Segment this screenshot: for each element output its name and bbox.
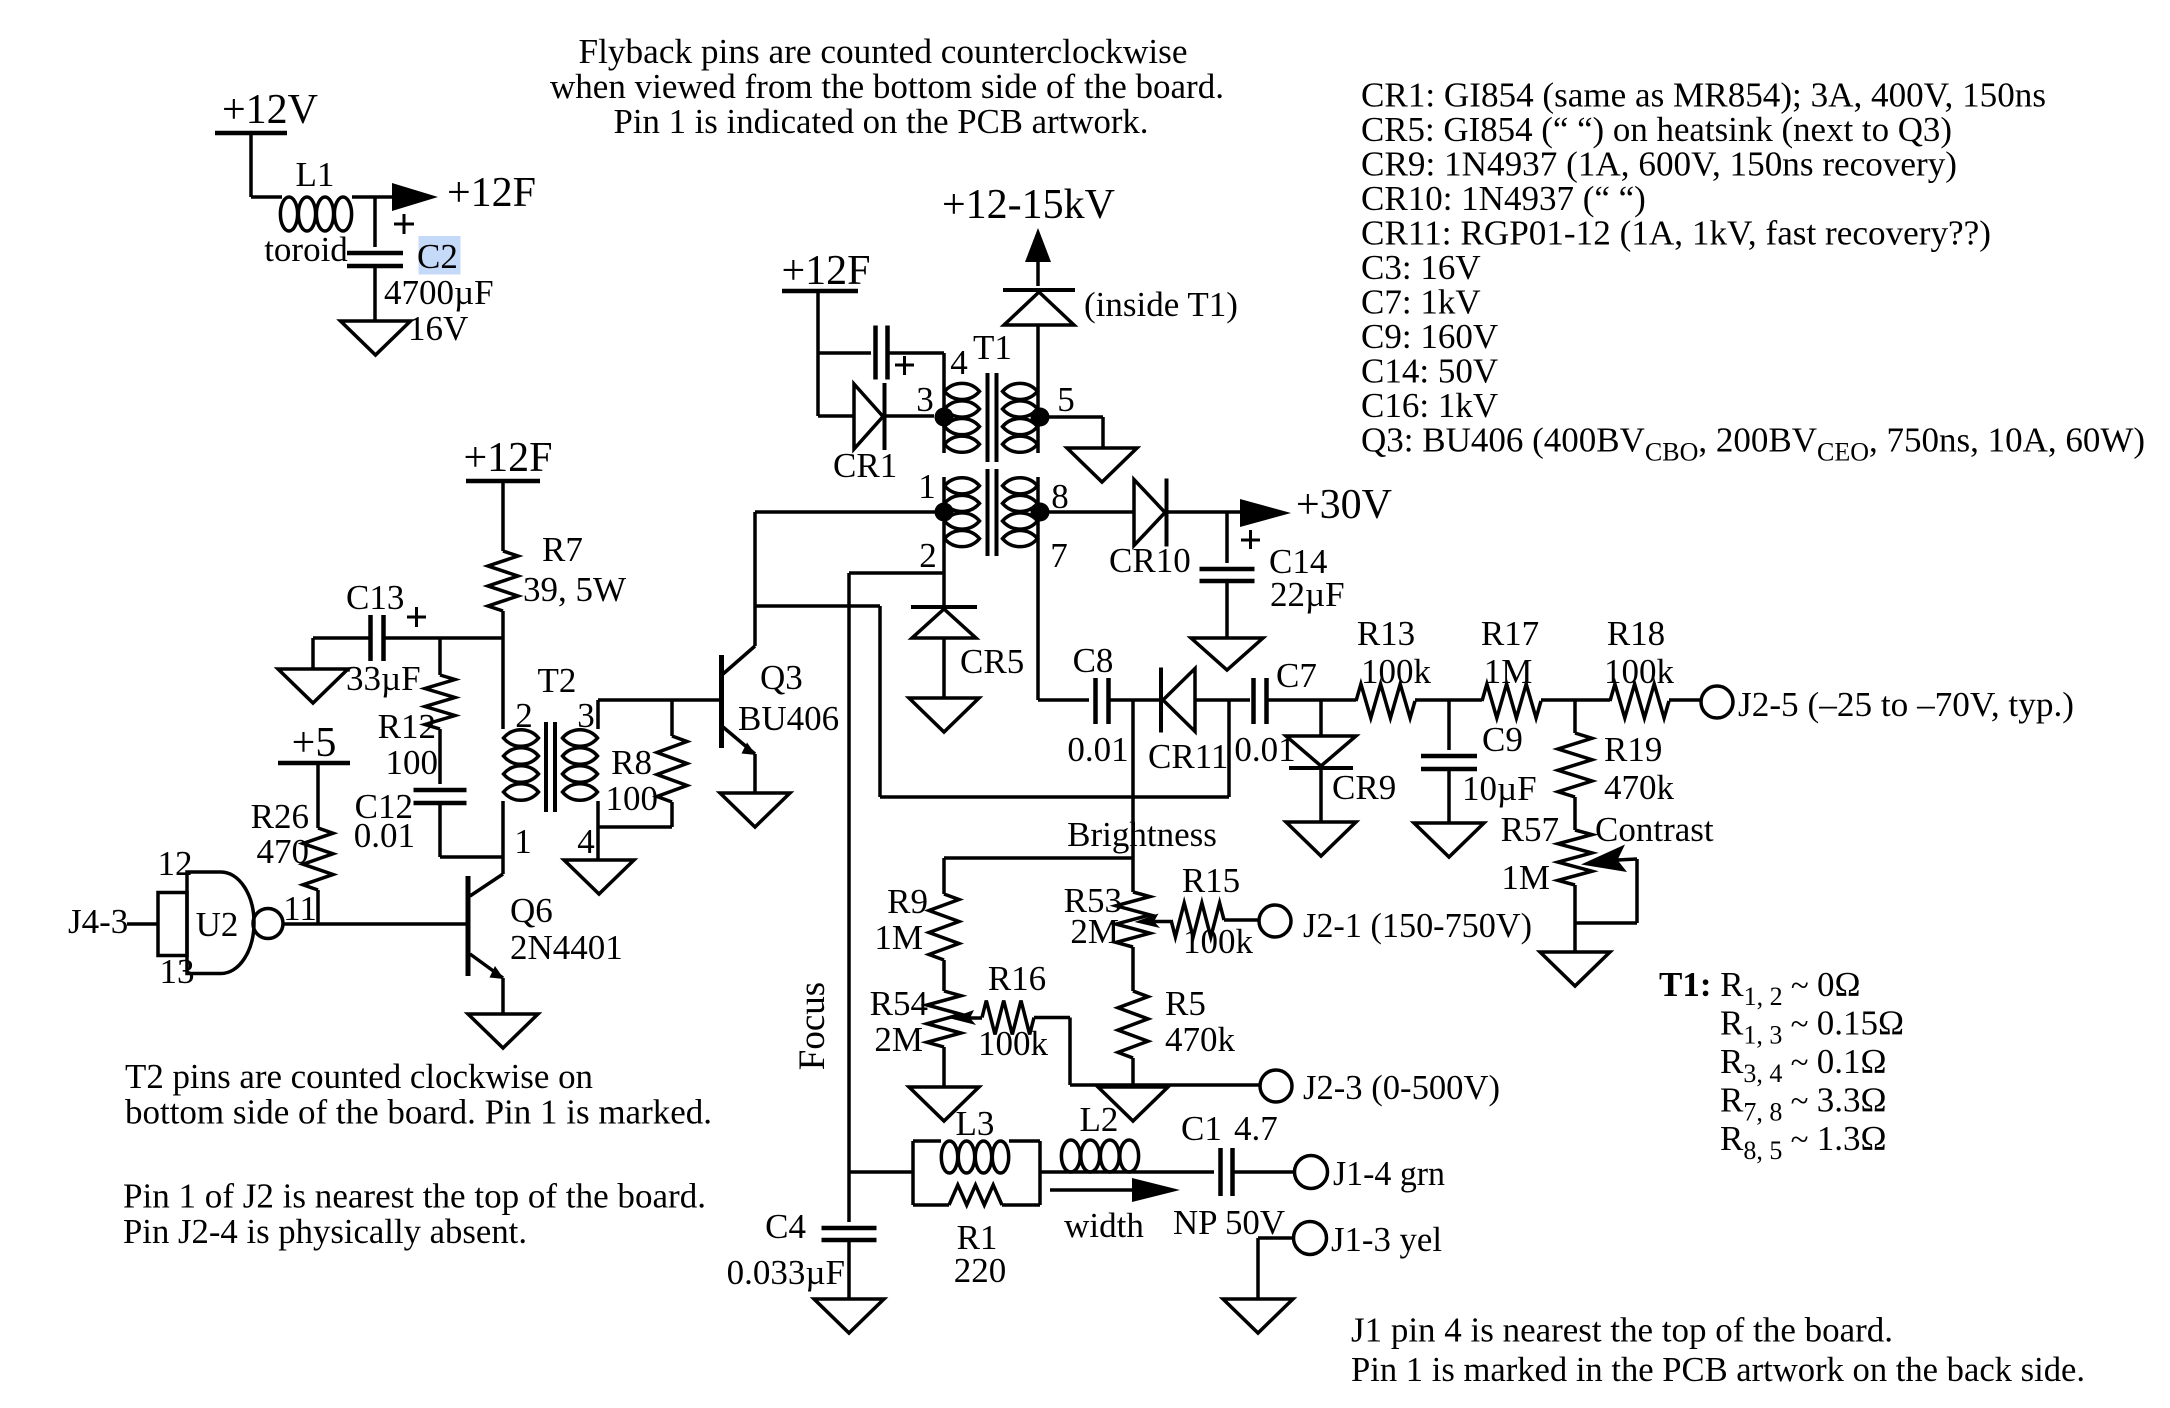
resistor R5 470k [1118, 984, 1236, 1085]
svg-text:R19: R19 [1604, 730, 1662, 769]
ground (R57) [1540, 952, 1610, 986]
svg-text:100k: 100k [1604, 652, 1675, 691]
T1 pin number 8 [1051, 477, 1069, 516]
svg-text:CR1: GI854 (same as MR854); 3A: CR1: GI854 (same as MR854); 3A, 400V, 15… [1361, 76, 2046, 115]
capacitor C4 0.033uF [727, 1172, 877, 1299]
node T1 pin 5 junction [1031, 408, 1050, 427]
svg-text:L3: L3 [956, 1104, 995, 1143]
svg-text:R54: R54 [870, 984, 928, 1023]
svg-text:1M: 1M [1501, 858, 1550, 897]
diode (inside T1) [1003, 285, 1238, 325]
svg-text:11: 11 [283, 889, 317, 928]
svg-text:Flyback pins are counted count: Flyback pins are counted counterclockwis… [579, 32, 1188, 71]
svg-text:U2: U2 [196, 905, 239, 944]
connector J1-4 [1295, 1154, 1446, 1193]
svg-text:+12-15kV: +12-15kV [942, 182, 1115, 228]
T2 secondary winding (pins 3-4) [563, 730, 598, 801]
svg-text:5: 5 [1057, 380, 1075, 419]
svg-text:+30V: +30V [1296, 482, 1392, 528]
transistor Q6 2N4401 [468, 874, 623, 1014]
resistor R19 470k [1558, 700, 1675, 830]
diode CR11 [1148, 668, 1250, 777]
svg-text:33µF: 33µF [346, 659, 421, 698]
svg-text:L2: L2 [1080, 1100, 1119, 1139]
svg-text:CR9: CR9 [1332, 768, 1396, 807]
diode CR5 [911, 607, 1024, 698]
svg-text:2M: 2M [1070, 912, 1119, 951]
node T1 pin 1 junction [935, 503, 954, 522]
svg-text:R12: R12 [378, 707, 436, 746]
svg-text:CR5: CR5 [960, 642, 1024, 681]
T2 core [546, 722, 555, 812]
svg-text:R18: R18 [1607, 614, 1665, 653]
transformer T1 label [973, 328, 1012, 367]
resistor R16 100k [978, 959, 1070, 1085]
svg-text:R8: R8 [611, 743, 652, 782]
net +12F arrow [392, 170, 536, 216]
svg-text:3: 3 [916, 380, 934, 419]
net +5 [278, 720, 350, 828]
svg-text:R9: R9 [887, 882, 928, 921]
svg-text:C14: 50V: C14: 50V [1361, 352, 1498, 391]
svg-text:22µF: 22µF [1270, 575, 1345, 614]
svg-text:bottom side of the board. Pin: bottom side of the board. Pin 1 is marke… [125, 1093, 712, 1132]
resistor R26 470 [251, 797, 333, 924]
svg-text:C7: C7 [1276, 656, 1317, 695]
ground (CR5) [909, 698, 979, 732]
ground (C4) [814, 1299, 884, 1333]
svg-text:C13: C13 [346, 578, 404, 617]
svg-text:CR5: GI854 (“ “) on heatsink (: CR5: GI854 (“ “) on heatsink (next to Q3… [1361, 110, 1952, 149]
svg-text:2N4401: 2N4401 [510, 928, 623, 967]
inductor L3 with resistor R1 220 (parallel box) [849, 1104, 1061, 1290]
svg-text:Brightness: Brightness [1067, 815, 1217, 854]
note: T2 pin counting [125, 1057, 712, 1132]
T1 core [988, 373, 997, 556]
connector J2-5 [1701, 685, 2074, 724]
svg-text:Focus: Focus [792, 982, 833, 1070]
svg-text:BU406: BU406 [738, 699, 839, 738]
capacitor C1 4.7 NP 50V [1173, 1109, 1294, 1242]
ground (R54) [909, 1087, 979, 1121]
svg-text:CR10: 1N4937 (“ “): CR10: 1N4937 (“ “) [1361, 179, 1646, 218]
node T1 pin 8 junction [1031, 503, 1050, 522]
svg-text:T1: T1 [973, 328, 1012, 367]
wire: U2 output to Q6 base [283, 922, 466, 926]
svg-text:width: width [1064, 1206, 1144, 1245]
ground (CR9) [1286, 822, 1356, 856]
U2 pin number 13 [160, 952, 195, 991]
svg-text:CR11: RGP01-12 (1A, 1kV, fast: CR11: RGP01-12 (1A, 1kV, fast recovery??… [1361, 214, 1991, 253]
svg-text:Q6: Q6 [510, 891, 553, 930]
T2 pin number 2 [515, 696, 533, 735]
svg-text:220: 220 [954, 1251, 1007, 1290]
svg-text:2: 2 [919, 536, 937, 575]
gate U2 (NAND) [187, 872, 283, 974]
potentiometer R54 2M [870, 984, 982, 1087]
svg-text:0.033µF: 0.033µF [727, 1253, 845, 1292]
U2 pin number 11 [283, 889, 317, 928]
svg-text:C16: 1kV: C16: 1kV [1361, 386, 1498, 425]
svg-text:C1: C1 [1181, 1109, 1222, 1148]
svg-text:J2-5 (–25 to –70V, typ.): J2-5 (–25 to –70V, typ.) [1738, 685, 2074, 724]
ground (C2) [341, 321, 411, 355]
note: J1 pins [1351, 1311, 2085, 1390]
svg-text:CR1: CR1 [833, 446, 897, 485]
net +12-15kV arrow [942, 182, 1115, 286]
svg-text:C7: 1kV: C7: 1kV [1361, 283, 1481, 322]
wire: T1 pin 7 down to C8 rail [1036, 546, 1040, 700]
svg-text:toroid: toroid [264, 230, 348, 269]
width arrow [1050, 1178, 1180, 1245]
svg-text:Pin 1 is marked in the PCB art: Pin 1 is marked in the PCB artwork on th… [1351, 1350, 2085, 1389]
wire: R7 to T2 pin 2 [501, 611, 505, 729]
svg-text:1: 1 [918, 467, 936, 506]
svg-text:R57: R57 [1501, 810, 1559, 849]
diode CR9 [1286, 700, 1396, 822]
wire: T2 pin 3 to Q3 base [598, 700, 719, 729]
svg-text:C9: 160V: C9: 160V [1361, 317, 1498, 356]
svg-text:C9: C9 [1482, 720, 1523, 759]
svg-text:T2: T2 [538, 661, 577, 700]
T1 pin number 7 [1050, 536, 1068, 575]
wire: T1 pin 5 to ground [1040, 417, 1103, 448]
svg-text:Q3: Q3 [760, 658, 803, 697]
T1 primary winding (pins 4-3-1-2 side) [944, 383, 980, 546]
svg-text:1M: 1M [874, 918, 923, 957]
T2 pin number 1 [514, 822, 532, 861]
svg-text:+12F: +12F [781, 248, 870, 294]
svg-text:4: 4 [950, 343, 968, 382]
wire: T1 pin 8 to CR10 [1040, 510, 1133, 514]
wire: diode to T1 pin 5 winding [1036, 325, 1040, 383]
resistor R9 1M [874, 882, 959, 991]
svg-text:4.7: 4.7 [1234, 1109, 1278, 1148]
svg-text:R17: R17 [1481, 614, 1539, 653]
T1 pin number 5 [1057, 380, 1075, 419]
net Focus (vertical wire) [792, 573, 849, 1172]
svg-text:470k: 470k [1165, 1020, 1236, 1059]
svg-text:NP 50V: NP 50V [1173, 1203, 1285, 1242]
T2 pin number 3 [577, 696, 595, 735]
wire: T1 pin 2 down and left [849, 546, 944, 605]
svg-text:100k: 100k [978, 1024, 1049, 1063]
capacitor C13 33uF [313, 578, 503, 698]
connector J2-3 [1260, 1068, 1500, 1107]
svg-text:16V: 16V [408, 309, 468, 348]
note: flyback pin counting [550, 32, 1224, 141]
ground (C14) [1191, 638, 1263, 670]
table: T1 winding resistances [1659, 965, 1904, 1165]
svg-text:1: 1 [514, 822, 532, 861]
svg-text:L1: L1 [296, 155, 335, 194]
parts list [1361, 76, 2145, 467]
capacitor C7 0.01 [1234, 656, 1356, 769]
svg-text:J2-1 (150-750V): J2-1 (150-750V) [1303, 906, 1532, 945]
T1 pin number 4 [950, 343, 968, 382]
svg-text:100: 100 [606, 779, 659, 818]
capacitor (snubber, at T1 pin 4) [818, 326, 944, 380]
svg-text:(inside T1): (inside T1) [1084, 285, 1238, 324]
svg-text:R26: R26 [251, 797, 309, 836]
svg-text:Pin 1 is indicated on the PCB: Pin 1 is indicated on the PCB artwork. [614, 102, 1149, 141]
resistor R7 39 5W [488, 530, 626, 611]
T1 pin number 2 [919, 536, 937, 575]
potentiometer R53 2M [1064, 881, 1171, 991]
svg-text:R15: R15 [1182, 861, 1240, 900]
svg-text:0.01: 0.01 [354, 816, 415, 855]
net +12F (at R7) [463, 435, 552, 551]
svg-text:T2 pins are counted clockwise: T2 pins are counted clockwise on [125, 1057, 593, 1096]
wire: T1 pin 1 to Q3 collector [755, 510, 944, 514]
svg-text:Contrast: Contrast [1595, 810, 1714, 849]
svg-text:13: 13 [160, 952, 195, 991]
connector J2-1 [1259, 905, 1532, 945]
U2 input bracket (pins 12,13 tied) [158, 893, 187, 956]
wire: T2 pin 1 to Q6 collector [501, 801, 505, 874]
T1 pin number 3 [916, 380, 934, 419]
resistor R18 100k [1604, 614, 1701, 718]
net J4-3 [68, 902, 158, 941]
svg-text:C3: 16V: C3: 16V [1361, 248, 1481, 287]
ground (J1-3) [1223, 1299, 1293, 1333]
svg-text:J2-3 (0-500V): J2-3 (0-500V) [1303, 1068, 1500, 1107]
inductor L1 (toroid) [251, 155, 392, 269]
svg-text:1M: 1M [1484, 652, 1533, 691]
svg-text:+12F: +12F [463, 435, 552, 481]
resistor R8 100 [598, 700, 687, 827]
ground (C13) [278, 669, 348, 703]
wire: cap to T1 pin 4 [942, 353, 946, 384]
diode CR1 [818, 383, 934, 485]
svg-text:Pin J2-4 is physically absent.: Pin J2-4 is physically absent. [123, 1212, 527, 1251]
svg-text:4700µF: 4700µF [384, 273, 494, 312]
svg-text:10µF: 10µF [1462, 769, 1537, 808]
svg-text:J4-3: J4-3 [68, 902, 128, 941]
ground (R5 / J2-3) [1098, 1087, 1168, 1121]
svg-text:C8: C8 [1073, 641, 1114, 680]
svg-text:12: 12 [158, 844, 193, 883]
T1 pin number 1 [918, 467, 936, 506]
svg-text:R13: R13 [1357, 614, 1415, 653]
capacitor C12 0.01 [354, 729, 503, 857]
resistor R15 100k [1171, 861, 1259, 961]
svg-text:2M: 2M [874, 1020, 923, 1059]
resistor R13 100k [1356, 614, 1482, 718]
svg-text:100k: 100k [1183, 922, 1254, 961]
transistor Q3 BU406 [722, 512, 840, 793]
wire: Q3 collector node to C8/CR11 junction [755, 606, 1229, 797]
net Brightness [944, 700, 1217, 894]
node T1 pin 3 junction [935, 408, 954, 427]
svg-text:J1-4 grn: J1-4 grn [1333, 1154, 1445, 1193]
svg-text:+12V: +12V [222, 87, 318, 133]
svg-text:R7: R7 [542, 530, 583, 569]
note: J2 pins [123, 1177, 706, 1252]
ground (T2 pin 4) [564, 860, 634, 894]
svg-text:J1-3 yel: J1-3 yel [1331, 1220, 1442, 1259]
svg-text:470: 470 [257, 832, 310, 871]
ground (T1 pin 5) [1067, 448, 1137, 482]
T1 secondary winding (pins 5-8-7 side) [1003, 383, 1039, 547]
ground (Q6 emitter) [468, 1014, 538, 1048]
svg-text:R5: R5 [1165, 984, 1206, 1023]
net +30V arrow [1240, 482, 1392, 528]
net +12F (at T1) [781, 248, 870, 416]
wire: J2-3 net [1070, 1083, 1260, 1087]
resistor R17 1M [1481, 614, 1610, 718]
capacitor C2 4700uF 16V [347, 197, 494, 348]
svg-text:100k: 100k [1361, 652, 1432, 691]
inductor L2 [1061, 1100, 1214, 1172]
diode CR10 [1109, 479, 1240, 581]
svg-text:CR9: 1N4937 (1A, 600V, 150ns r: CR9: 1N4937 (1A, 600V, 150ns recovery) [1361, 145, 1957, 184]
svg-text:CR11: CR11 [1148, 737, 1228, 776]
connector J1-3 [1258, 1220, 1442, 1299]
svg-text:4: 4 [577, 822, 595, 861]
svg-text:39, 5W: 39, 5W [523, 570, 626, 609]
resistor R12 100 [378, 638, 455, 782]
U2 pin number 12 [158, 844, 193, 883]
ground (Q3 emitter) [720, 793, 790, 827]
capacitor C9 10uF [1421, 700, 1537, 823]
svg-text:+12F: +12F [447, 170, 536, 216]
svg-text:Pin 1 of J2 is nearest the top: Pin 1 of J2 is nearest the top of the bo… [123, 1177, 706, 1216]
potentiometer R57 1M (Contrast) [1501, 810, 1714, 952]
svg-text:470k: 470k [1604, 768, 1675, 807]
svg-text:CR10: CR10 [1109, 541, 1191, 580]
svg-text:8: 8 [1051, 477, 1069, 516]
svg-text:C2: C2 [417, 237, 458, 276]
wire: T2 pin 4 to ground [596, 801, 600, 860]
svg-text:7: 7 [1050, 536, 1068, 575]
T2 primary winding (pins 2-1) [504, 730, 539, 801]
svg-text:100: 100 [386, 743, 439, 782]
svg-text:when viewed from the bottom si: when viewed from the bottom side of the … [550, 67, 1224, 106]
svg-text:C4: C4 [765, 1207, 806, 1246]
capacitor C8 0.01 [1038, 641, 1160, 769]
svg-text:J1 pin 4 is nearest the top of: J1 pin 4 is nearest the top of the board… [1351, 1311, 1893, 1350]
svg-text:+5: +5 [292, 720, 337, 766]
svg-text:0.01: 0.01 [1067, 730, 1128, 769]
net +12V [215, 87, 318, 197]
svg-text:R16: R16 [988, 959, 1046, 998]
T2 pin number 4 [577, 822, 595, 861]
transformer T2 label [538, 661, 577, 700]
capacitor C14 22uF [1200, 512, 1345, 638]
ground (C9) [1414, 823, 1484, 857]
